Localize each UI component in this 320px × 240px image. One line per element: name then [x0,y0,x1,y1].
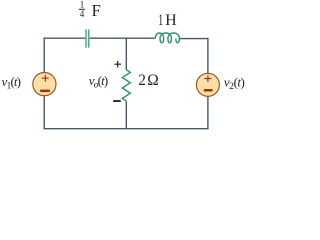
wire: bottom [44,128,209,130]
V1 plus sign [42,75,49,82]
wire: top-right segment (inductor to right corner) [179,38,208,40]
capacitor value label: fraction 1/4 [79,0,85,19]
svg-text:v1(t): v1(t) [2,74,21,92]
wire: left branch [43,38,45,129]
voltage source V2 circle [196,73,219,96]
voltage source V1 circle [33,73,56,96]
V1 minus bar [40,90,50,93]
svg-text:F: F [92,1,101,20]
wire: right branch [207,38,209,129]
inductor L coil (1 H) [155,33,179,43]
svg-text:Ω: Ω [147,72,158,89]
svg-text:1: 1 [158,11,163,29]
V2 minus bar [204,89,213,92]
capacitor C plates (1/4 F) [86,30,89,48]
svg-text:4: 4 [80,9,85,19]
wire: middle branch [125,38,127,129]
svg-text:2: 2 [138,72,146,89]
V2 plus sign [204,75,211,82]
svg-text:vo(t): vo(t) [89,73,108,91]
svg-text:H: H [165,12,176,29]
svg-text:v2(t): v2(t) [224,75,245,93]
resistor R zigzag (2 ohm) [122,70,130,101]
wire: top-left segment (corner to capacitor) [44,37,85,39]
plus polarity mark above vo [114,61,121,68]
wire: top-middle segment (capacitor to inductor) [90,37,156,39]
inductor value label 1 H [158,11,163,29]
minus polarity mark below vo [113,100,121,102]
